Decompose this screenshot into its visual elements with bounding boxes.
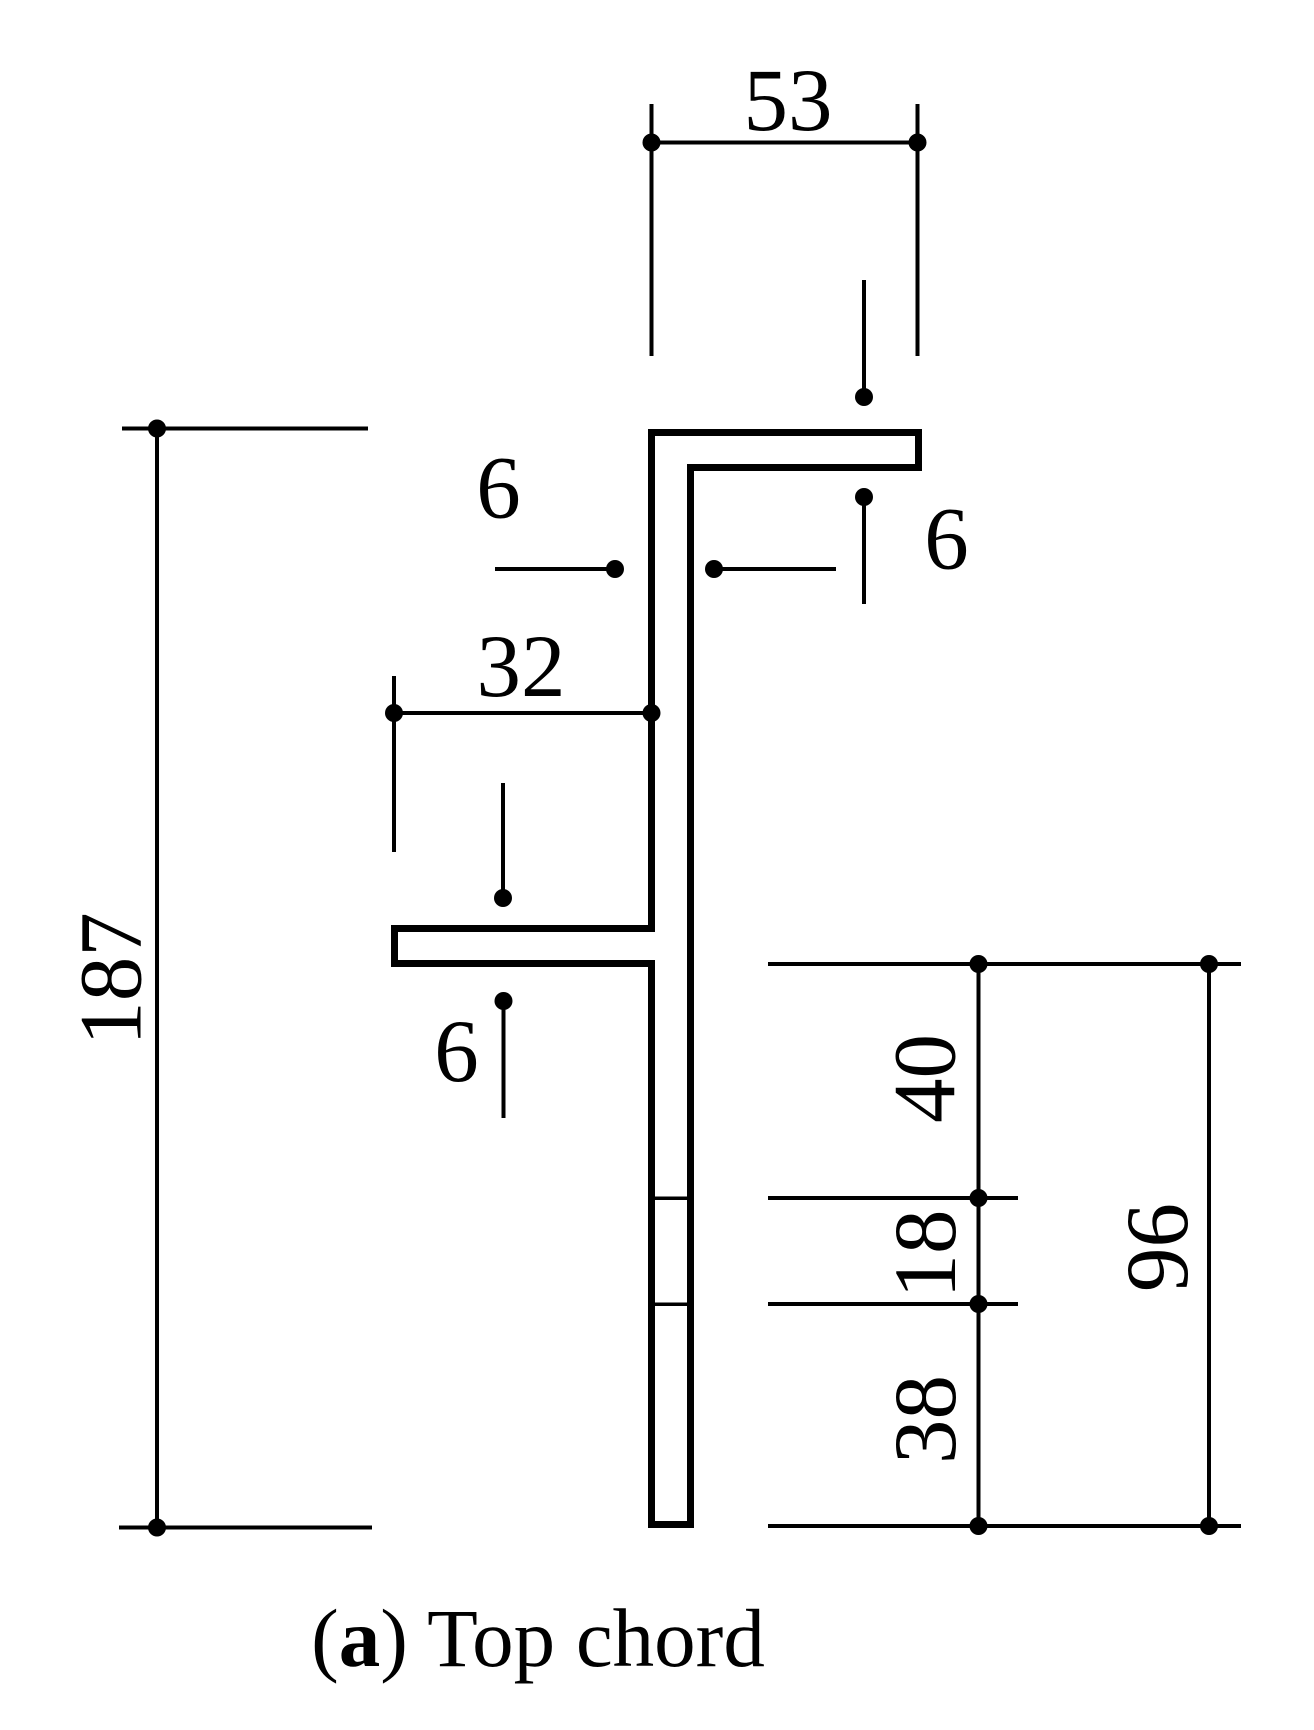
dim 32 dot right: [643, 704, 661, 722]
top flange inner line: [687, 464, 922, 471]
top flange thickness leader upper dot: [855, 388, 873, 406]
dot 96 bottom: [1200, 1517, 1218, 1535]
dot 96 top: [1200, 955, 1218, 973]
svg-text:53: 53: [744, 52, 833, 150]
web thickness leader right: [714, 567, 836, 571]
svg-text:38: 38: [877, 1375, 975, 1464]
dim 187 bottom extension line: [119, 1526, 372, 1530]
dim 53 dot left: [643, 134, 661, 152]
middle flange top line: [391, 925, 655, 932]
web right line: [687, 464, 694, 1528]
dim 53 extension line left: [650, 104, 654, 356]
dim 53 line: [652, 141, 918, 145]
dot 40-18: [970, 1189, 988, 1207]
middle flange thickness leader lower dot: [495, 992, 513, 1010]
top flange top line: [648, 429, 922, 436]
dim 32 extension line left: [392, 676, 396, 852]
dot 40 top: [970, 955, 988, 973]
middle flange bottom line: [391, 960, 655, 967]
dim 53 dot right: [909, 134, 927, 152]
web thickness leader left dot: [606, 560, 624, 578]
dot 18-38: [970, 1295, 988, 1313]
web seam divider 1: [655, 1197, 687, 1201]
top flange right end: [915, 429, 922, 471]
right dims tick 18-38: [768, 1302, 1018, 1306]
web left lower line: [648, 960, 655, 1528]
svg-text:6: 6: [434, 1003, 479, 1101]
svg-text:(a) Top chord: (a) Top chord: [311, 1592, 765, 1684]
web left upper line: [648, 429, 655, 932]
top flange thickness leader lower: [862, 497, 866, 604]
middle flange left end: [391, 925, 398, 967]
dim 32 dot left: [385, 704, 403, 722]
dim 187 dot top: [148, 420, 166, 438]
dim 40-18-38 line: [977, 964, 981, 1526]
middle flange thickness leader lower: [502, 1001, 506, 1118]
right dims top extension line: [768, 962, 1241, 966]
dim 187 dot bottom: [148, 1519, 166, 1537]
top flange thickness leader lower dot: [855, 488, 873, 506]
svg-text:40: 40: [877, 1034, 975, 1123]
svg-text:187: 187: [63, 912, 161, 1046]
web bottom line: [648, 1521, 694, 1528]
svg-text:6: 6: [476, 440, 521, 538]
svg-text:96: 96: [1109, 1203, 1207, 1292]
svg-text:18: 18: [877, 1210, 975, 1299]
web seam divider 2: [655, 1303, 687, 1307]
right dims tick 40-18: [768, 1196, 1018, 1200]
dim 187 top extension line: [122, 427, 368, 431]
top flange thickness leader upper: [862, 280, 866, 397]
middle flange thickness leader upper dot: [494, 889, 512, 907]
right dims bottom extension line: [768, 1524, 1241, 1528]
web thickness leader left: [495, 567, 615, 571]
dim 53 extension line right: [916, 104, 920, 356]
middle flange thickness leader upper: [501, 783, 505, 898]
dim 187 line: [155, 428, 159, 1527]
web thickness leader right dot: [705, 560, 723, 578]
svg-text:6: 6: [924, 491, 969, 589]
dim 96 line: [1207, 964, 1211, 1526]
dim 32 line: [394, 711, 652, 715]
dot 38 bottom: [970, 1517, 988, 1535]
svg-text:32: 32: [477, 618, 566, 716]
